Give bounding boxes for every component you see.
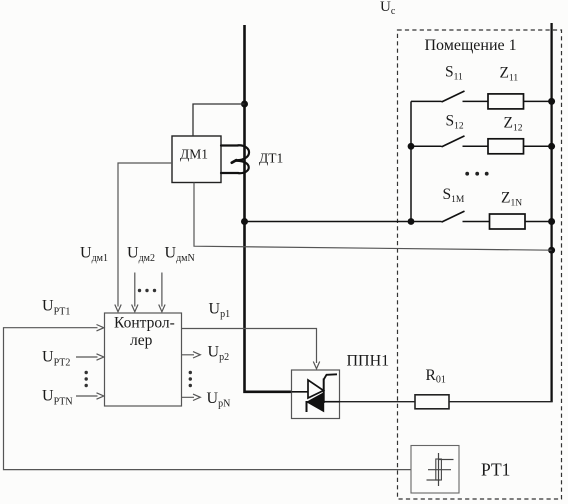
junction dots main bus <box>241 101 248 226</box>
impedance Z12 <box>488 139 524 154</box>
wire UpN arrow <box>182 394 201 400</box>
wire UdmN arrow into controller <box>159 273 165 312</box>
svg-text:лер: лер <box>130 332 153 349</box>
block DM1 <box>172 136 221 183</box>
block PPN1 converter <box>292 370 340 419</box>
wire feed from bus to room <box>245 221 412 223</box>
wire R01 to right bus <box>449 401 553 403</box>
switch S12 <box>411 136 488 147</box>
ellipsis dots room <box>465 172 488 176</box>
block controller Контроллер <box>105 313 182 406</box>
wire Z12 to right bus <box>524 145 552 147</box>
dashed enclosure Помещение 1 <box>398 30 562 499</box>
junction dots room <box>408 98 555 254</box>
svg-text:Помещение 1: Помещение 1 <box>425 37 517 54</box>
impedance Z1N <box>490 214 526 229</box>
svg-text:ДТ1: ДТ1 <box>259 150 283 165</box>
wire RT1 to controller UPT1 input <box>4 328 412 470</box>
svg-text:ППН1: ППН1 <box>347 353 390 370</box>
wire main left bus to PPN1 <box>245 25 292 392</box>
switch S1M <box>411 211 490 222</box>
ellipsis dots top of controller <box>138 289 156 292</box>
svg-text:ДМ1: ДМ1 <box>180 147 208 162</box>
impedance Z11 <box>488 94 524 109</box>
current sensor DT1 winding <box>221 145 249 173</box>
switch S11 <box>411 91 488 102</box>
wire DM1 bottom pin to right bus <box>194 183 552 251</box>
resistor R01 <box>415 395 449 409</box>
wire Up1 to PPN1 <box>182 329 317 364</box>
wire room inner left riser <box>410 101 412 221</box>
block RT1 temperature sensor <box>411 446 459 494</box>
arrowhead Up1 <box>313 362 319 369</box>
thyristor pair symbol inside PPN1 <box>292 374 340 412</box>
wire UPT2 arrow <box>76 354 104 360</box>
wire UPTN arrow <box>76 393 104 399</box>
arrowhead Udm1 <box>115 305 121 312</box>
wire Udm2 arrow into controller <box>132 273 138 312</box>
ellipsis dots UPT <box>85 371 88 387</box>
wire Z11 to right bus <box>524 100 552 102</box>
wire right bus <box>550 23 552 402</box>
sensor symbol inside RT1 <box>427 453 454 486</box>
arrowhead UPT1 <box>97 325 104 331</box>
wire PPN1 output to R01 <box>340 401 416 403</box>
wire Up2 arrow <box>182 352 201 358</box>
wire DM1 left pin Udm1 down to controller <box>118 163 172 307</box>
wire Z1N to right bus <box>525 221 552 223</box>
ellipsis dots Up <box>189 371 192 387</box>
svg-text:Контрол-: Контрол- <box>114 315 175 332</box>
wire DM1 top pin to bus <box>193 104 245 136</box>
svg-text:РТ1: РТ1 <box>481 460 510 480</box>
